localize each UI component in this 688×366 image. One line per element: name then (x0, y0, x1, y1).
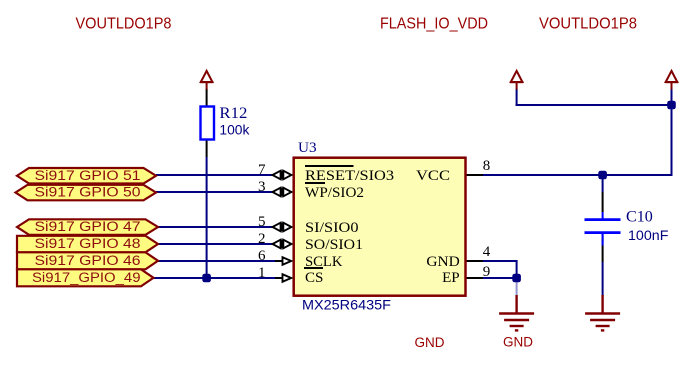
svg-text:RESET/SIO3: RESET/SIO3 (305, 168, 394, 184)
svg-text:CS: CS (305, 270, 323, 286)
svg-text:VOUTLDO1P8: VOUTLDO1P8 (539, 16, 637, 33)
svg-text:C10: C10 (626, 208, 653, 225)
svg-text:FLASH_IO_VDD: FLASH_IO_VDD (380, 16, 488, 33)
svg-text:4: 4 (483, 244, 491, 260)
svg-text:6: 6 (258, 248, 266, 264)
svg-text:WP/SIO2: WP/SIO2 (305, 185, 364, 201)
svg-text:VCC: VCC (416, 168, 450, 184)
svg-text:VOUTLDO1P8: VOUTLDO1P8 (76, 16, 172, 33)
svg-text:3: 3 (258, 179, 266, 195)
svg-text:EP: EP (442, 270, 460, 286)
svg-text:1: 1 (258, 265, 266, 281)
svg-text:5: 5 (258, 214, 266, 230)
svg-text:GND: GND (415, 335, 445, 350)
svg-text:Si917 GPIO 47: Si917 GPIO 47 (35, 219, 141, 234)
svg-text:SI/SIO0: SI/SIO0 (305, 220, 359, 236)
svg-text:100k: 100k (219, 123, 249, 138)
svg-text:Si917 GPIO 51: Si917 GPIO 51 (35, 168, 141, 183)
svg-text:Si917 GPIO 48: Si917 GPIO 48 (35, 236, 141, 251)
svg-text:MX25R6435F: MX25R6435F (302, 297, 391, 313)
svg-text:2: 2 (258, 231, 266, 247)
svg-text:9: 9 (483, 264, 491, 280)
svg-text:GND: GND (426, 254, 459, 270)
svg-text:R12: R12 (219, 105, 247, 122)
svg-text:8: 8 (483, 158, 491, 174)
svg-text:U3: U3 (298, 140, 317, 156)
svg-text:Si917 GPIO 46: Si917 GPIO 46 (35, 253, 141, 268)
svg-text:Si917_GPIO_49: Si917_GPIO_49 (32, 270, 141, 285)
svg-text:SO/SIO1: SO/SIO1 (305, 237, 363, 253)
svg-text:Si917 GPIO 50: Si917 GPIO 50 (35, 185, 141, 200)
svg-text:7: 7 (258, 162, 266, 178)
svg-text:GND: GND (503, 334, 533, 349)
svg-text:100nF: 100nF (628, 227, 668, 243)
